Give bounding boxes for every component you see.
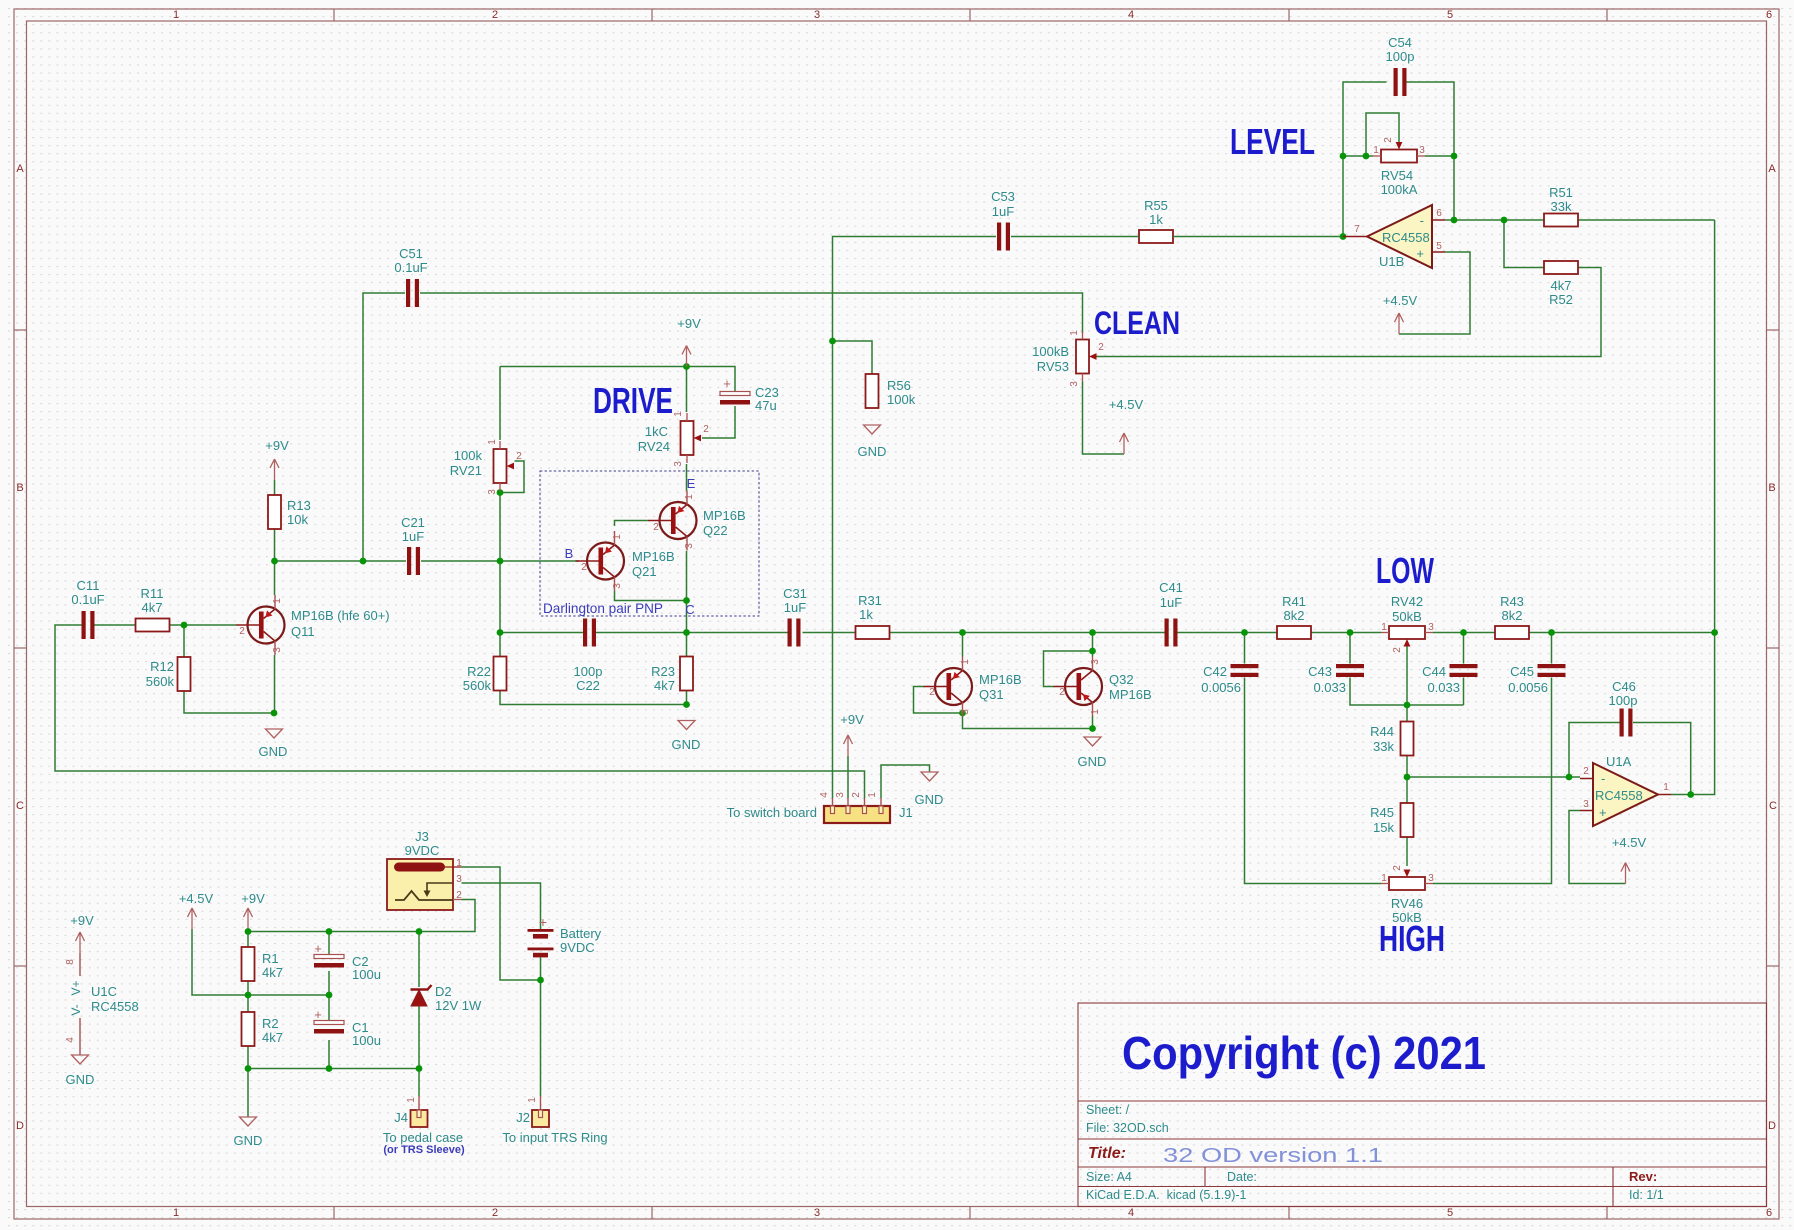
svg-text:4: 4	[1128, 1207, 1134, 1219]
wire ground rail y=1068.5	[248, 1068, 419, 1070]
svg-text:MP16B: MP16B	[979, 672, 1022, 687]
power flag +9V (drive)	[677, 316, 701, 367]
wire RV24 column	[686, 367, 688, 492]
wire J3 pin1 to battery minus	[462, 867, 541, 980]
svg-text:C51: C51	[399, 246, 423, 261]
svg-text:File: 32OD.sch: File: 32OD.sch	[1086, 1121, 1169, 1135]
svg-text:RV54: RV54	[1381, 168, 1413, 183]
transistor Q21	[576, 531, 675, 591]
capacitor C2	[314, 941, 381, 982]
svg-text:6: 6	[1766, 1207, 1772, 1219]
svg-text:1: 1	[1381, 622, 1387, 633]
wire U1A output	[1671, 220, 1715, 795]
svg-text:3: 3	[1069, 381, 1080, 387]
svg-text:1: 1	[1373, 145, 1379, 156]
wire RV21 wiper loop	[500, 461, 524, 493]
wire Q21 emitter row to Q22	[615, 551, 687, 633]
connector J4	[383, 1096, 465, 1156]
junction	[181, 622, 188, 629]
wire Q31 emitter to gnd rail	[963, 716, 1093, 729]
svg-text:LEVEL: LEVEL	[1230, 121, 1315, 162]
svg-text:E: E	[687, 476, 696, 491]
svg-text:50kB: 50kB	[1392, 609, 1422, 624]
svg-text:To switch board: To switch board	[727, 805, 817, 820]
wire Q32 base loop	[1044, 651, 1093, 687]
svg-text:1k: 1k	[859, 607, 873, 622]
svg-text:100u: 100u	[352, 1033, 381, 1048]
svg-text:2: 2	[492, 9, 498, 21]
op-amp U1C power unit	[65, 913, 139, 1087]
svg-text:RV24: RV24	[638, 439, 670, 454]
battery BT 9VDC	[528, 914, 602, 957]
junction	[1501, 217, 1508, 224]
svg-text:1: 1	[867, 792, 878, 798]
svg-text:GND: GND	[66, 1072, 95, 1087]
junction	[416, 928, 423, 935]
wire C2-C1 column	[328, 932, 330, 1069]
wire C23 to RV24 wiper	[702, 406, 735, 438]
svg-text:MP16B (hfe 60+): MP16B (hfe 60+)	[291, 608, 390, 623]
junction	[245, 928, 252, 935]
svg-text:+: +	[314, 941, 322, 956]
svg-text:D2: D2	[435, 984, 452, 999]
junction	[271, 558, 278, 565]
svg-text:32 OD version 1.1: 32 OD version 1.1	[1163, 1145, 1383, 1167]
title block	[1078, 1003, 1767, 1207]
wire Q31 base loop	[914, 687, 963, 714]
svg-text:R22: R22	[467, 664, 491, 679]
ground symbol (drive)	[672, 721, 701, 753]
svg-text:Battery: Battery	[560, 926, 602, 941]
wire RV54 wiper loop	[1366, 113, 1399, 156]
capacitor C22	[574, 619, 603, 694]
wire input row y=625	[55, 625, 865, 798]
svg-text:0.1uF: 0.1uF	[394, 260, 427, 275]
svg-text:1: 1	[1069, 330, 1080, 336]
svg-text:8k2: 8k2	[1502, 608, 1523, 623]
junction	[497, 489, 504, 496]
ground symbol (buffer)	[1078, 737, 1107, 769]
wire C54 row y=82	[1343, 82, 1454, 237]
svg-text:3: 3	[960, 709, 971, 715]
wire Q21 collector to Q22 base	[615, 521, 649, 527]
junction	[1089, 648, 1096, 655]
svg-text:47u: 47u	[755, 398, 777, 413]
wire C51 left drop	[363, 293, 405, 561]
op-amp U1A	[1580, 754, 1671, 826]
junction	[683, 363, 690, 370]
svg-text:1uF: 1uF	[1160, 595, 1182, 610]
svg-text:4k7: 4k7	[142, 600, 163, 615]
junction	[497, 558, 504, 565]
svg-text:3: 3	[272, 647, 283, 653]
junction	[959, 710, 966, 717]
svg-text:2: 2	[1583, 766, 1589, 777]
svg-text:+: +	[723, 376, 731, 391]
junction	[416, 1065, 423, 1072]
svg-text:+: +	[539, 914, 547, 930]
transistor Q11	[236, 595, 390, 655]
svg-text:4k7: 4k7	[1551, 278, 1572, 293]
svg-text:1: 1	[1663, 782, 1669, 793]
junction	[1460, 629, 1467, 636]
junction	[829, 338, 836, 345]
junction	[497, 629, 504, 636]
svg-text:RC4558: RC4558	[1595, 788, 1643, 803]
svg-text:9VDC: 9VDC	[560, 940, 595, 955]
capacitor C44	[1422, 664, 1477, 695]
svg-text:LOW: LOW	[1376, 550, 1434, 591]
svg-text:1: 1	[1090, 709, 1101, 715]
junction	[1089, 629, 1096, 636]
wire R56 branch	[833, 341, 873, 374]
wire R1 column	[247, 932, 249, 1118]
resistor R23	[651, 657, 693, 694]
resistor R55	[1139, 198, 1173, 243]
wire +9V row y=366.5	[500, 367, 735, 392]
svg-text:RC4558: RC4558	[1382, 230, 1430, 245]
capacitor C54	[1386, 35, 1415, 96]
svg-text:100kB: 100kB	[1032, 344, 1069, 359]
svg-text:C: C	[1769, 800, 1777, 812]
wire C51 to RV53 row y=293	[420, 293, 1083, 333]
svg-text:100k: 100k	[454, 448, 483, 463]
svg-text:C31: C31	[783, 586, 807, 601]
svg-text:3: 3	[684, 543, 695, 549]
svg-text:1: 1	[487, 439, 498, 445]
svg-text:Title:: Title:	[1088, 1145, 1126, 1162]
potentiometer RV24	[638, 411, 710, 467]
svg-text:R55: R55	[1144, 198, 1168, 213]
wire U1A pin2 row	[1407, 776, 1580, 778]
svg-text:U1B: U1B	[1379, 254, 1404, 269]
capacitor C42	[1201, 664, 1258, 695]
junction	[326, 1065, 333, 1072]
svg-text:2: 2	[492, 1207, 498, 1219]
svg-text:100k: 100k	[887, 392, 916, 407]
capacitor C45	[1508, 664, 1565, 695]
wire C43 column	[1350, 633, 1464, 706]
svg-text:C45: C45	[1510, 664, 1534, 679]
resistor R45	[1370, 803, 1413, 837]
svg-text:0.033: 0.033	[1427, 680, 1460, 695]
svg-text:GND: GND	[234, 1133, 263, 1148]
svg-text:MP16B: MP16B	[632, 549, 675, 564]
svg-text:R23: R23	[651, 664, 675, 679]
svg-text:R41: R41	[1282, 594, 1306, 609]
svg-text:1uF: 1uF	[992, 204, 1014, 219]
wire R52 branch	[1504, 220, 1545, 268]
svg-text:2: 2	[1059, 687, 1065, 698]
svg-text:12V 1W: 12V 1W	[435, 998, 482, 1013]
darlington dashed box	[540, 471, 759, 616]
wire RV54 row y=156	[1343, 155, 1454, 157]
svg-text:1k: 1k	[1149, 212, 1163, 227]
svg-text:3: 3	[1428, 622, 1434, 633]
svg-text:R44: R44	[1370, 724, 1394, 739]
wire C46 feedback loop	[1569, 723, 1691, 795]
junction	[1089, 725, 1096, 732]
wire J1 pin3 +9V	[847, 756, 849, 798]
svg-text:1: 1	[173, 1207, 179, 1219]
capacitor C43	[1308, 664, 1364, 695]
svg-text:1: 1	[612, 534, 623, 540]
junction	[1566, 774, 1573, 781]
svg-text:R1: R1	[262, 951, 279, 966]
svg-text:1: 1	[406, 1097, 417, 1103]
svg-text:6: 6	[1436, 208, 1442, 219]
svg-text:10k: 10k	[287, 512, 308, 527]
svg-text:8k2: 8k2	[1284, 608, 1305, 623]
junction	[1451, 217, 1458, 224]
svg-text:1: 1	[684, 494, 695, 500]
svg-text:(or TRS Sleeve): (or TRS Sleeve)	[383, 1144, 465, 1156]
resistor R1	[242, 947, 283, 981]
junction	[1711, 629, 1718, 636]
svg-text:Id: 1/1: Id: 1/1	[1629, 1188, 1664, 1202]
junction	[537, 977, 544, 984]
resistor R12	[146, 657, 191, 691]
svg-text:33k: 33k	[1373, 739, 1394, 754]
svg-text:C42: C42	[1203, 664, 1227, 679]
wire R13 column	[274, 480, 276, 561]
svg-text:C54: C54	[1388, 35, 1412, 50]
svg-text:To pedal case: To pedal case	[383, 1130, 463, 1145]
resistor R43	[1495, 594, 1529, 639]
wire RV53 pin3 to +4.5V	[1083, 382, 1125, 455]
junction	[1687, 791, 1694, 798]
svg-text:HIGH: HIGH	[1379, 918, 1445, 959]
junction	[683, 629, 690, 636]
svg-text:Size: A4: Size: A4	[1086, 1170, 1132, 1184]
svg-text:C44: C44	[1422, 664, 1446, 679]
wire R55 to U1B pin7	[1011, 236, 1343, 238]
svg-text:3: 3	[1090, 659, 1101, 665]
svg-text:1uF: 1uF	[784, 600, 806, 615]
svg-text:Rev:: Rev:	[1629, 1169, 1657, 1184]
junction	[1363, 153, 1370, 160]
svg-text:+4.5V: +4.5V	[179, 891, 214, 906]
wire +9V rail y=931.5	[248, 900, 475, 932]
svg-text:C11: C11	[77, 578, 100, 593]
junction	[360, 558, 367, 565]
svg-text:Darlington pair PNP: Darlington pair PNP	[543, 600, 663, 616]
svg-text:0.0056: 0.0056	[1508, 680, 1548, 695]
resistor R22	[463, 657, 507, 694]
svg-text:GND: GND	[672, 737, 701, 752]
svg-text:R2: R2	[262, 1016, 279, 1031]
power flag +9V (J1)	[840, 712, 864, 756]
junction	[1404, 702, 1411, 709]
junction	[1340, 233, 1347, 240]
svg-text:R12: R12	[150, 659, 174, 674]
svg-text:1kC: 1kC	[645, 424, 668, 439]
svg-text:560k: 560k	[463, 678, 492, 693]
svg-text:3: 3	[1419, 145, 1425, 156]
resistor R52	[1544, 261, 1578, 307]
svg-text:7: 7	[1354, 224, 1360, 235]
wire RV21 column	[499, 367, 501, 633]
wire J3 pin3 to battery plus	[462, 883, 541, 929]
svg-text:3: 3	[456, 874, 462, 885]
resistor R31	[856, 593, 890, 639]
svg-text:100p: 100p	[574, 664, 603, 679]
svg-text:R43: R43	[1500, 594, 1524, 609]
svg-text:+4.5V: +4.5V	[1109, 397, 1144, 412]
capacitor C41	[1159, 580, 1183, 647]
svg-text:5: 5	[1447, 9, 1453, 21]
svg-text:3: 3	[835, 792, 846, 798]
svg-text:C22: C22	[576, 678, 600, 693]
svg-text:U1C: U1C	[91, 984, 117, 999]
wire R22 R23 bottom rail	[500, 633, 687, 705]
junction	[245, 1065, 252, 1072]
wire mid row y=632.5	[500, 632, 1165, 634]
svg-text:1: 1	[173, 9, 179, 21]
svg-text:GND: GND	[858, 444, 887, 459]
wire U1A pin3 bias	[1569, 811, 1626, 884]
svg-text:GND: GND	[1078, 754, 1107, 769]
svg-text:DRIVE: DRIVE	[593, 380, 673, 421]
svg-text:MP16B: MP16B	[703, 508, 746, 523]
svg-text:R56: R56	[887, 378, 911, 393]
svg-text:+9V: +9V	[265, 438, 289, 453]
svg-text:R45: R45	[1370, 805, 1394, 820]
svg-text:CLEAN: CLEAN	[1094, 305, 1180, 341]
potentiometer RV21	[450, 439, 523, 495]
wire RV53 wiper to R52	[1097, 268, 1602, 357]
svg-text:Date:: Date:	[1227, 1170, 1257, 1184]
svg-text:15k: 15k	[1373, 820, 1394, 835]
wire battery minus to J2	[540, 958, 542, 1097]
power flag +4.5V (RV53)	[1109, 397, 1144, 454]
resistor R13	[268, 495, 311, 529]
svg-text:U1A: U1A	[1606, 754, 1632, 769]
wire J1 pin1 to gnd	[881, 765, 930, 798]
svg-text:C41: C41	[1159, 580, 1183, 595]
connector J1 to switch board	[727, 792, 913, 823]
svg-text:RV21: RV21	[450, 463, 482, 478]
capacitor C21	[401, 515, 425, 575]
wire +4.5V feed	[192, 929, 248, 995]
svg-text:2: 2	[581, 562, 587, 573]
junction	[683, 597, 690, 604]
svg-text:B: B	[16, 482, 23, 494]
svg-text:KiCad E.D.A. kicad (5.1.9)-1: KiCad E.D.A. kicad (5.1.9)-1	[1086, 1188, 1247, 1202]
capacitor C23 polarized	[720, 376, 779, 413]
svg-text:C: C	[16, 800, 24, 812]
svg-text:J3: J3	[415, 829, 429, 844]
svg-text:-: -	[1420, 213, 1424, 228]
svg-text:1: 1	[456, 858, 462, 869]
svg-text:5: 5	[1447, 1207, 1453, 1219]
capacitor C51	[394, 246, 427, 307]
junction	[1340, 153, 1347, 160]
transistor Q31	[924, 657, 1022, 717]
capacitor C53	[991, 189, 1015, 251]
wire Q11 emitter to GND	[274, 655, 276, 713]
svg-text:100kA: 100kA	[1381, 182, 1418, 197]
svg-text:4: 4	[65, 1037, 76, 1043]
junction	[683, 701, 690, 708]
svg-text:+9V: +9V	[70, 913, 94, 928]
svg-text:2: 2	[456, 890, 462, 901]
ground symbol (J1)	[915, 772, 944, 807]
wire R12 branch	[184, 625, 274, 713]
svg-text:Q32: Q32	[1109, 672, 1134, 687]
svg-text:100p: 100p	[1386, 49, 1415, 64]
svg-text:0.1uF: 0.1uF	[71, 592, 104, 607]
svg-text:J4: J4	[394, 1110, 408, 1125]
junction	[326, 928, 333, 935]
junction	[245, 992, 252, 999]
potentiometer RV46	[1381, 865, 1434, 925]
svg-text:4: 4	[819, 792, 830, 798]
transistor Q32 (mirrored)	[1054, 657, 1152, 717]
svg-text:+: +	[314, 1007, 322, 1022]
junction	[1451, 153, 1458, 160]
svg-text:+: +	[1599, 805, 1607, 820]
ground symbol (power rail)	[234, 1117, 263, 1148]
svg-text:Q21: Q21	[632, 564, 657, 579]
svg-text:V-: V-	[69, 1004, 83, 1015]
junction	[1548, 629, 1555, 636]
wire Q11 collector to node	[274, 561, 276, 595]
svg-text:1: 1	[1381, 873, 1387, 884]
svg-text:J2: J2	[516, 1110, 530, 1125]
svg-text:RV53: RV53	[1037, 359, 1069, 374]
svg-text:1: 1	[960, 659, 971, 665]
svg-text:MP16B: MP16B	[1109, 687, 1152, 702]
svg-text:+4.5V: +4.5V	[1612, 835, 1647, 850]
svg-text:2: 2	[1383, 137, 1394, 143]
svg-text:RV42: RV42	[1391, 594, 1423, 609]
wire C45 column	[1433, 633, 1552, 884]
svg-text:100p: 100p	[1609, 693, 1638, 708]
svg-text:R52: R52	[1549, 292, 1573, 307]
svg-text:A: A	[1768, 163, 1776, 175]
wire RV42 wiper to mid rail	[1406, 647, 1408, 706]
junction	[326, 992, 333, 999]
svg-text:+: +	[1416, 246, 1424, 261]
svg-text:4k7: 4k7	[262, 1030, 283, 1045]
svg-text:5: 5	[1436, 241, 1442, 252]
wire Q32 collector	[1092, 633, 1094, 657]
wire drive base row y=561	[275, 560, 580, 562]
ground symbol (Q11)	[259, 729, 288, 759]
svg-text:Q31: Q31	[979, 687, 1004, 702]
svg-text:2: 2	[929, 687, 935, 698]
svg-text:Sheet: /: Sheet: /	[1086, 1103, 1130, 1117]
svg-text:2: 2	[1098, 342, 1104, 353]
svg-text:R31: R31	[858, 593, 882, 608]
op-amp U1B	[1343, 205, 1445, 269]
svg-text:3: 3	[612, 583, 623, 589]
wire C53 feed column x=832.5	[833, 237, 997, 799]
resistor R51	[1544, 185, 1578, 227]
svg-text:-: -	[1601, 771, 1605, 786]
svg-text:C43: C43	[1308, 664, 1332, 679]
svg-text:A: A	[16, 163, 24, 175]
power flag +9V	[241, 891, 265, 929]
wire U1B pin6 row y=220	[1445, 219, 1715, 221]
svg-text:GND: GND	[259, 744, 288, 759]
svg-text:3: 3	[1428, 873, 1434, 884]
svg-text:RV46: RV46	[1391, 896, 1423, 911]
svg-text:C21: C21	[401, 515, 425, 530]
svg-text:To input TRS Ring: To input TRS Ring	[502, 1130, 607, 1145]
capacitor C31	[783, 586, 807, 647]
